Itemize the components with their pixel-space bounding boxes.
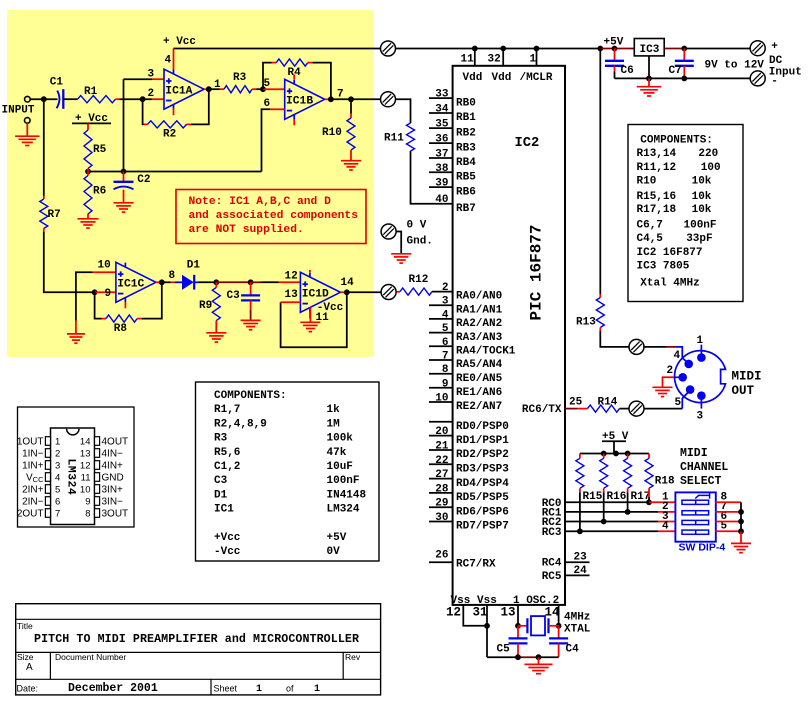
node gnd tap <box>536 654 542 660</box>
wire IC1A pin4 stub <box>173 49 175 70</box>
terminal pad 5 (midi +5V) <box>629 339 644 354</box>
op-amp IC1B <box>285 79 325 125</box>
svg-text:3IN−: 3IN− <box>102 497 124 508</box>
pin RD2/PSP2 stub <box>429 449 453 451</box>
svg-text:OUT: OUT <box>732 384 755 398</box>
node R16 top <box>601 451 607 457</box>
wire C3 to ground <box>250 300 252 310</box>
svg-text:R7: R7 <box>48 209 61 221</box>
node crystal right <box>556 623 562 629</box>
svg-text:C1: C1 <box>50 76 64 88</box>
pin RB0 stub (pin 33) <box>429 97 453 99</box>
svg-text:IN4148: IN4148 <box>327 489 367 501</box>
node IC1D output <box>344 289 350 295</box>
svg-text:Size: Size <box>17 652 34 662</box>
resistor R11 <box>407 123 415 151</box>
ground below IC3 <box>637 87 661 96</box>
wire R6 to ground <box>87 214 89 218</box>
wire R11 path terminal to RB7 <box>395 99 453 203</box>
pin RC4 stub (pin 23) <box>565 561 590 563</box>
svg-text:RB4: RB4 <box>456 157 476 169</box>
wire C7 stub bottom <box>683 66 685 79</box>
ground below R10 <box>341 161 361 170</box>
svg-text:4: 4 <box>662 521 669 533</box>
MIDI pin 2 <box>674 373 687 382</box>
svg-text:4IN−: 4IN− <box>102 449 124 460</box>
svg-text:9: 9 <box>442 378 449 390</box>
svg-text:10k: 10k <box>692 204 712 216</box>
svg-text:COMPONENTS:: COMPONENTS: <box>214 390 287 402</box>
svg-text:R8: R8 <box>114 323 128 335</box>
LM324 pin 13 right <box>80 449 123 460</box>
svg-text:C2: C2 <box>137 174 150 186</box>
wire input gnd stub <box>26 123 28 135</box>
svg-text:-: - <box>771 75 778 87</box>
resistor R6 <box>84 176 92 215</box>
svg-text:R9: R9 <box>199 300 212 312</box>
node C6 top <box>612 46 618 52</box>
svg-text:SELECT: SELECT <box>680 475 722 488</box>
MIDI pin 3 <box>697 391 706 408</box>
pin RC5 stub (pin 24) <box>565 574 590 576</box>
svg-text:9: 9 <box>85 497 90 508</box>
wire Vdd pin32 stub <box>502 49 504 66</box>
pin 12 Vss stub <box>463 605 487 626</box>
wire R14 to terminal 6 <box>620 408 630 410</box>
svg-text:R3: R3 <box>214 433 228 445</box>
ground below R9 <box>206 333 226 342</box>
pin RC7/RX stub (pin 26) <box>429 561 453 563</box>
title block outer box <box>16 604 381 695</box>
svg-text:2OUT: 2OUT <box>17 509 44 520</box>
svg-text:RE1/AN6: RE1/AN6 <box>456 387 502 399</box>
svg-text:2IN−: 2IN− <box>22 497 44 508</box>
svg-text:13: 13 <box>501 605 516 619</box>
svg-text:R10: R10 <box>637 175 657 187</box>
wire R9 node to C3 node <box>216 281 250 283</box>
svg-text:5: 5 <box>675 397 682 409</box>
wire RC2 line to DIP pin3 <box>565 521 604 523</box>
svg-text:14: 14 <box>80 437 91 448</box>
svg-text:+ Vcc: + Vcc <box>163 36 196 48</box>
ground below R6 <box>78 219 99 228</box>
LM324 package body <box>51 428 95 525</box>
svg-text:5: 5 <box>55 485 60 496</box>
wire input to C1 <box>30 98 57 100</box>
wire IC1C output <box>156 281 162 283</box>
resistor R14 <box>588 405 620 412</box>
svg-text:R11,12: R11,12 <box>637 162 677 174</box>
svg-text:2: 2 <box>667 365 674 377</box>
svg-text:+Vcc: +Vcc <box>214 532 240 544</box>
svg-text:29: 29 <box>435 498 448 510</box>
svg-text:R13: R13 <box>576 317 596 329</box>
svg-text:1IN−: 1IN− <box>22 449 44 460</box>
svg-text:/MCLR: /MCLR <box>520 72 553 84</box>
svg-text:DC: DC <box>769 55 783 67</box>
wire R4 feedback loop <box>263 63 331 100</box>
svg-text:CHANNEL: CHANNEL <box>680 461 728 474</box>
note text <box>189 196 359 236</box>
wire C7 stub top <box>683 49 685 61</box>
svg-text:10k: 10k <box>692 175 712 187</box>
svg-text:R16: R16 <box>607 491 627 503</box>
terminal DC plus <box>750 41 765 56</box>
svg-text:47k: 47k <box>327 447 347 459</box>
svg-text:RD6/PSP6: RD6/PSP6 <box>456 506 509 518</box>
resistor R4 <box>276 59 308 66</box>
LM324 pin 14 right <box>80 437 128 448</box>
svg-text:C3: C3 <box>214 475 228 487</box>
svg-text:220: 220 <box>698 148 718 160</box>
resistor R16 with leads <box>603 454 605 459</box>
svg-text:MIDI: MIDI <box>732 370 762 384</box>
wire C5 top stub <box>517 626 519 639</box>
svg-text:1: 1 <box>314 684 320 695</box>
svg-text:28: 28 <box>435 483 449 495</box>
svg-text:RA0/AN0: RA0/AN0 <box>456 291 502 303</box>
wire IC3 gnd pin <box>648 56 650 79</box>
MIDI pin 4 <box>684 360 693 369</box>
svg-text:5: 5 <box>264 78 271 90</box>
svg-text:IC1: IC1 <box>214 504 234 516</box>
node Vdd pin32 <box>500 46 506 52</box>
svg-text:C3: C3 <box>227 290 241 302</box>
wire +5V rail to PIC and IC3 <box>395 48 600 50</box>
pin RA5/AN4 stub (pin 7) <box>429 359 453 361</box>
svg-text:3: 3 <box>442 296 449 308</box>
svg-text:24: 24 <box>574 565 588 577</box>
svg-text:D1: D1 <box>187 260 201 272</box>
svg-text:R15: R15 <box>583 491 603 503</box>
node C5 gnd <box>515 654 521 660</box>
node MCLR pin1 <box>534 46 540 52</box>
node IC1C output <box>159 279 165 285</box>
wire MCLR stub <box>536 49 538 66</box>
svg-text:RD4/PSP4: RD4/PSP4 <box>456 478 509 490</box>
wire +5V down to R13 <box>599 49 601 295</box>
svg-text:25: 25 <box>569 397 583 409</box>
svg-text:34: 34 <box>435 104 449 116</box>
svg-text:R2: R2 <box>163 129 176 141</box>
svg-text:4: 4 <box>55 473 60 484</box>
node input junction <box>41 96 47 102</box>
svg-text:RD0/PSP0: RD0/PSP0 <box>456 421 509 433</box>
terminal pad 1 (+Vcc rail) <box>381 41 396 56</box>
wire C5 bottom stub <box>517 643 519 657</box>
pin 13 OSC1 stub <box>517 605 519 626</box>
svg-text:C6: C6 <box>621 65 634 77</box>
pin RE0/AN5 stub (pin 8) <box>429 373 453 375</box>
node C7 bottom <box>681 76 687 82</box>
components table (microcontroller) <box>628 125 743 302</box>
svg-text:1k: 1k <box>327 404 341 416</box>
svg-text:10: 10 <box>435 393 448 405</box>
svg-text:Gnd.: Gnd. <box>407 235 433 247</box>
svg-text:39: 39 <box>435 178 448 190</box>
svg-text:RB2: RB2 <box>456 127 476 139</box>
wire R1 to IC1A pin2 <box>116 98 120 100</box>
svg-text:14: 14 <box>545 605 561 619</box>
resistor R8 <box>106 315 137 322</box>
pin RB5 stub (pin 38) <box>429 171 453 173</box>
svg-text:4MHz: 4MHz <box>564 611 590 623</box>
svg-text:RE0/AN5: RE0/AN5 <box>456 373 503 385</box>
pin RA2/AN2 stub (pin 4) <box>429 318 453 320</box>
svg-text:RB1: RB1 <box>456 112 476 124</box>
wire DIP pin7 to gnd bus <box>715 511 741 513</box>
svg-text:3OUT: 3OUT <box>102 509 129 520</box>
svg-text:Document Number: Document Number <box>55 652 127 662</box>
svg-text:C1,2: C1,2 <box>214 461 240 473</box>
wire IC3 to C7 node <box>664 48 684 50</box>
node C3 tap <box>248 279 254 285</box>
svg-text:C7: C7 <box>669 65 682 77</box>
wire crystal right stub <box>549 625 559 627</box>
wire R10 top <box>350 99 352 113</box>
input terminal J-in <box>25 96 31 102</box>
wire R8 feedback loop <box>95 282 162 318</box>
svg-text:R14: R14 <box>598 396 618 408</box>
svg-text:8: 8 <box>169 270 176 282</box>
terminal wire 0V gnd <box>396 232 402 254</box>
svg-text:LM324: LM324 <box>64 459 76 496</box>
svg-text:14: 14 <box>341 277 355 289</box>
svg-text:5: 5 <box>442 323 449 335</box>
wire oscillator ground rail <box>487 656 518 658</box>
svg-text:4: 4 <box>674 350 681 362</box>
svg-text:4OUT: 4OUT <box>102 437 129 448</box>
svg-text:C6,7: C6,7 <box>637 220 663 232</box>
svg-text:Vdd: Vdd <box>463 72 483 84</box>
svg-text:R3: R3 <box>233 72 247 84</box>
wire rail to C6 <box>600 48 614 50</box>
input ground reference circle <box>25 118 31 124</box>
pin RB6 stub (pin 39) <box>429 186 453 188</box>
wire terminal to MIDI pin4 <box>644 346 667 348</box>
wire D1 to R9 node <box>199 281 217 283</box>
LM324 pin 9 right <box>85 497 123 508</box>
svg-text:R11: R11 <box>384 133 404 145</box>
svg-text:R5,6: R5,6 <box>214 447 240 459</box>
LM324 pin 12 right <box>80 461 123 472</box>
svg-text:RD2/PSP2: RD2/PSP2 <box>456 449 509 461</box>
wire R5 to junction <box>87 169 89 172</box>
svg-text:of: of <box>286 684 294 694</box>
node crystal left <box>515 623 521 629</box>
note box <box>176 190 366 244</box>
resistor R9 <box>212 287 220 320</box>
crystal XTAL 4MHz <box>527 616 548 635</box>
svg-text:R2,4,8,9: R2,4,8,9 <box>214 418 267 430</box>
svg-text:XTAL: XTAL <box>564 624 591 636</box>
svg-text:7: 7 <box>55 509 60 520</box>
svg-text:PIC 16F877: PIC 16F877 <box>528 224 546 320</box>
svg-text:8: 8 <box>442 364 449 376</box>
wire crystal left stub <box>518 625 527 627</box>
wire C1 to R1 <box>63 98 77 100</box>
pin 14 OSC2 stub <box>558 605 560 626</box>
svg-text:IC3: IC3 <box>640 44 660 56</box>
svg-text:IC1B: IC1B <box>286 96 313 108</box>
svg-text:Sheet: Sheet <box>214 684 238 694</box>
wire output to D1 <box>162 281 171 283</box>
svg-text:RB5: RB5 <box>456 172 476 184</box>
svg-text:D1: D1 <box>214 489 228 501</box>
svg-text:33: 33 <box>435 89 449 101</box>
svg-text:IC3 7805: IC3 7805 <box>637 260 690 272</box>
wire gnd stub <box>538 657 540 664</box>
node pin9 junction <box>92 289 98 295</box>
svg-text:RD7/PSP7: RD7/PSP7 <box>456 521 509 533</box>
ground below DIP <box>731 543 751 552</box>
wire C2 top stub <box>123 172 125 182</box>
svg-text:2: 2 <box>148 88 155 100</box>
wire IC1D output to terminal 4 <box>347 291 382 293</box>
LM324 pin 11 right <box>81 473 124 484</box>
LM324 pin 5 left <box>22 485 60 496</box>
pin RE1/AN6 stub (pin 9) <box>429 387 453 389</box>
ground below IC1C pin10 <box>67 334 85 343</box>
svg-text:23: 23 <box>574 552 588 564</box>
svg-text:C5: C5 <box>497 644 511 656</box>
svg-text:Note: IC1 A,B,C and D: Note: IC1 A,B,C and D <box>189 196 332 208</box>
wire C4 bottom stub <box>558 643 560 657</box>
wire junction to R6 <box>87 172 89 176</box>
svg-text:R12: R12 <box>409 274 429 286</box>
svg-text:R18: R18 <box>655 475 675 487</box>
svg-text:0V: 0V <box>327 546 341 558</box>
svg-text:100nF: 100nF <box>327 475 360 487</box>
svg-text:+: + <box>771 41 778 53</box>
wire gnd bus vertical <box>740 502 742 531</box>
wire input node down to R7 <box>43 99 45 196</box>
pin RD3/PSP3 stub <box>429 463 453 465</box>
svg-text:RA2/AN2: RA2/AN2 <box>456 318 502 330</box>
svg-text:4: 4 <box>442 309 449 321</box>
pin RD5/PSP5 stub <box>429 492 453 494</box>
svg-text:RC6/TX: RC6/TX <box>522 404 562 416</box>
wire +Vcc bar <box>72 122 111 124</box>
svg-text:IC1D: IC1D <box>302 289 329 301</box>
wire R13 to terminal 5 <box>599 328 601 332</box>
wire R7 to IC1C pin9 <box>43 229 45 233</box>
svg-text:31: 31 <box>473 605 488 619</box>
MIDI pin 5 <box>686 385 695 394</box>
svg-text:Vdd: Vdd <box>492 72 512 84</box>
svg-text:13: 13 <box>285 289 299 301</box>
svg-text:11: 11 <box>461 54 475 66</box>
svg-text:IC2 16F877: IC2 16F877 <box>637 247 703 259</box>
node pin5 junction <box>260 86 266 92</box>
pin RB3 stub (pin 36) <box>429 142 453 144</box>
terminal pad 2 (preamp out 1) <box>381 92 396 107</box>
components table (preamp) <box>196 382 380 561</box>
wire pin5 stub <box>263 88 285 90</box>
wire gnd bus stub <box>740 531 742 543</box>
svg-text:1: 1 <box>256 684 262 695</box>
svg-text:R17,18: R17,18 <box>637 204 677 216</box>
DIP pin labels right <box>721 492 728 533</box>
svg-text:10: 10 <box>80 485 91 496</box>
svg-text:22: 22 <box>435 455 448 467</box>
svg-text:38: 38 <box>435 163 449 175</box>
wire pin10 to ground <box>76 272 93 320</box>
svg-text:R5: R5 <box>93 144 107 156</box>
wire R10 to ground <box>350 150 352 160</box>
svg-text:12: 12 <box>285 271 298 283</box>
wire pin9 stub <box>95 291 116 293</box>
ground at input <box>15 136 39 145</box>
svg-text:RD1/PSP1: RD1/PSP1 <box>456 435 509 447</box>
LM324 pin 7 left <box>17 509 60 520</box>
LM324 pin 4 left <box>26 473 60 485</box>
svg-text:32: 32 <box>488 54 501 66</box>
svg-text:LM324: LM324 <box>327 504 360 516</box>
svg-text:R13,14: R13,14 <box>637 148 677 160</box>
pin RB1 stub (pin 34) <box>429 112 453 114</box>
svg-text:13: 13 <box>80 449 91 460</box>
wire output to terminal 2 <box>331 98 381 100</box>
wire R9 to ground <box>215 321 217 333</box>
svg-text:PITCH TO MIDI PREAMPLIFIER and: PITCH TO MIDI PREAMPLIFIER and MICROCONT… <box>34 633 359 646</box>
pin RB2 stub (pin 35) <box>429 127 453 129</box>
wire RC6 to R14 <box>565 408 577 410</box>
svg-text:IC1C: IC1C <box>117 279 144 291</box>
diode D1 <box>175 275 199 290</box>
pin RD6/PSP6 stub <box>429 506 453 508</box>
pin RD7/PSP7 stub <box>429 521 453 523</box>
svg-text:12: 12 <box>446 605 461 619</box>
svg-text:RC7/RX: RC7/RX <box>456 559 496 571</box>
ground below C2 <box>114 203 134 212</box>
node R9 tap <box>213 279 219 285</box>
wire C7 node to DC+ terminal <box>684 48 750 50</box>
title block lines <box>16 619 381 679</box>
resistor R2 <box>148 121 187 128</box>
svg-text:21: 21 <box>435 441 449 453</box>
terminal pad 6 (midi signal) <box>629 401 644 416</box>
LM324 pin 2 left <box>22 449 60 460</box>
wire output to R3 <box>209 88 220 90</box>
svg-text:26: 26 <box>435 550 448 562</box>
svg-text:10uF: 10uF <box>327 461 353 473</box>
wire C6 to IC3 <box>615 48 635 50</box>
wire DIP pin6 to gnd bus <box>715 521 741 523</box>
wire terminal to MIDI pin5 <box>644 408 683 410</box>
wire RC3 line to DIP pin4 <box>565 530 580 532</box>
wire C4 top stub <box>558 626 560 639</box>
wire bottom rail to DC- terminal <box>615 77 751 79</box>
pin RA4/TOCK1 stub (pin 6) <box>429 345 453 347</box>
resistor R12 <box>400 288 432 295</box>
LM324 pinout outer box <box>18 407 135 527</box>
svg-text:RA5/AN4: RA5/AN4 <box>456 359 503 371</box>
resistor R3 <box>224 86 252 93</box>
node IC1B output <box>328 96 334 102</box>
svg-text:INPUT: INPUT <box>2 104 35 116</box>
svg-text:VCC: VCC <box>26 473 44 485</box>
wire R12 from terminal to RA0 <box>395 291 398 293</box>
svg-text:10: 10 <box>98 260 111 272</box>
switch SW DIP-4 box <box>675 492 715 541</box>
svg-text:Date:: Date: <box>17 684 39 694</box>
svg-text:and associated components: and associated components <box>189 210 359 222</box>
svg-text:R6: R6 <box>93 186 106 198</box>
LM324 notch <box>67 429 79 435</box>
svg-text:Title: Title <box>17 621 33 631</box>
LM324 pin 8 right <box>85 509 128 520</box>
